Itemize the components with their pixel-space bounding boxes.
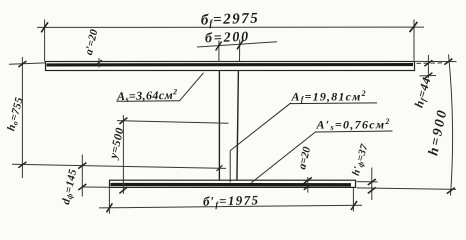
value label b = 200 [205, 30, 250, 47]
bottom flange [110, 180, 356, 187]
dimension b = 200 (web width) [197, 40, 277, 62]
dimension h = 900 (right) [415, 55, 457, 196]
value label h'_f = 37 [351, 142, 372, 177]
tension steel centroid line [12, 164, 226, 171]
web [219, 71, 238, 182]
svg-text:б=200: б=200 [205, 30, 250, 47]
value label h = 900 [426, 107, 451, 157]
value label u = 500 [107, 126, 126, 161]
leader + label A_f = 19,81 cm2 [230, 103, 377, 183]
dimension h'_f = 37 (bottom right of flange) [357, 168, 457, 201]
value label a' = 20 [83, 28, 101, 56]
svg-text:As=3,64см2: As=3,64см2 [116, 87, 178, 104]
dimension b'_f = 1975 (bottom) [99, 188, 362, 214]
value label b'_f = 1975 [203, 192, 260, 209]
value label b_f = 2975 [201, 11, 260, 30]
value label h0 = 755 [5, 96, 26, 133]
dimension d_f = 145 (bottom left) [78, 155, 109, 197]
dimension a' = 20 (top left tick) [96, 58, 102, 68]
dimension u = 500 (middle vertical) [117, 115, 229, 194]
value label d_f = 145 [60, 168, 80, 206]
leader + label A's = 0,76 cm2 [251, 131, 392, 183]
dimension a = 20 (bottom middle) [304, 177, 312, 193]
top flange [46, 62, 415, 71]
dimension h_f = 44 (top right flange) [417, 55, 444, 79]
leader + label A_s = 3,64 cm2 [117, 73, 204, 102]
value label a = 20 [296, 145, 313, 170]
svg-text:б′f=1975: б′f=1975 [203, 192, 260, 209]
svg-text:А′s=0,76см2: А′s=0,76см2 [316, 117, 391, 132]
dimension b_f = 2975 (top) [37, 20, 424, 62]
value label h_f = 44 [412, 75, 435, 109]
dimension h0 = 755 (left) [9, 57, 46, 178]
